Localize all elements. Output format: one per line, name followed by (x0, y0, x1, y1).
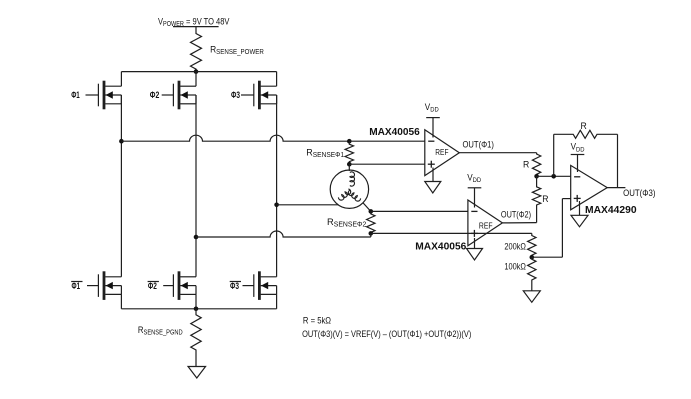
transistor Q5 (Φ2 low-side) (163, 271, 196, 300)
label R3 (581, 121, 588, 131)
node phase A tap (119, 139, 124, 144)
op-amp U3 MAX44290 (571, 165, 608, 209)
label gate Φ3 low (230, 281, 241, 291)
resistor RSENSEΦ1 (345, 141, 353, 164)
wire U2 output (502, 222, 536, 224)
wire feedback up (553, 134, 555, 176)
note transfer function (302, 328, 471, 339)
label MAX40056 (U1) (369, 127, 420, 138)
transistor Q1 (Φ1 high-side) (86, 81, 122, 110)
supply VDD U1 (425, 102, 440, 138)
wire phase B (hop) (196, 231, 371, 237)
op-amp U2 MAX40056 (468, 200, 503, 246)
label U1 REF (435, 147, 448, 157)
op-amp U1 MAX40056 (425, 130, 460, 176)
svg-text:OUT(Φ3): OUT(Φ3) (623, 188, 656, 199)
svg-text:VDD: VDD (467, 172, 481, 184)
svg-text:Φ2: Φ2 (150, 89, 160, 100)
node RSENSEΦ2 top (369, 209, 374, 214)
wire Q2 drain to rail (195, 72, 197, 87)
label OUT(Φ1) (463, 139, 495, 150)
resistor 100kΩ (528, 257, 536, 281)
wire Q1 drain to rail (120, 72, 122, 87)
label 200kΩ (504, 242, 526, 252)
svg-text:Φ1: Φ1 (72, 281, 81, 292)
svg-text:200kΩ: 200kΩ (504, 242, 526, 252)
wire to U2 non-inverting input and divider (371, 232, 532, 234)
resistor RSENSE_PGND (191, 309, 201, 352)
svg-text:REF: REF (479, 221, 493, 231)
ground U2 (467, 249, 483, 261)
transistor Q4 (Φ1 low-side) (87, 271, 121, 300)
node bus junction (194, 307, 199, 312)
label RSENSE_POWER (210, 44, 264, 56)
node RSENSEΦ1 top (347, 139, 352, 144)
wire Q4 source to bus (120, 294, 122, 308)
wire 100k to ground (531, 281, 533, 291)
wire Q3 drain to rail (276, 72, 278, 87)
node RSENSEΦ1 bottom (347, 162, 352, 167)
label U2 REF (479, 221, 493, 231)
wire to U1 inverting input (349, 140, 425, 142)
ground U3 (571, 215, 588, 227)
label MAX44290 (U3) (585, 205, 637, 216)
label MAX40056 (U2) (415, 241, 466, 252)
wire to U1 non-inverting input (349, 163, 425, 165)
node phase C tap (274, 203, 279, 208)
node rail junction (194, 69, 199, 74)
svg-text:Φ2: Φ2 (148, 281, 157, 291)
label R2 (542, 194, 549, 204)
wire bottom bus (121, 308, 276, 310)
wire motor to RSENSEΦ2 (363, 203, 371, 212)
wire Q5 source to bus (195, 294, 197, 308)
svg-text:R: R (523, 159, 530, 169)
label 100kΩ (504, 262, 526, 272)
U1 REF pin wire (432, 168, 434, 182)
svg-text:MAX40056: MAX40056 (415, 241, 466, 252)
wire divider to U3 plus (532, 199, 571, 258)
label gate Φ1 (71, 90, 80, 101)
label OUT(Φ2) (501, 210, 531, 220)
ground U1 (425, 182, 441, 194)
label OUT(Φ3) (623, 188, 656, 199)
svg-text:MAX40056: MAX40056 (369, 127, 420, 138)
label RSENSE_PGND (138, 324, 183, 337)
svg-text:VDD: VDD (425, 102, 439, 114)
resistor R1 (532, 153, 540, 176)
supply VDD U3 (571, 141, 585, 172)
wire phase B riser (370, 233, 372, 237)
svg-text:R: R (581, 121, 588, 131)
svg-text:OUT(Φ3)(V) = VREF(V) – (OUT(Φ1: OUT(Φ3)(V) = VREF(V) – (OUT(Φ1) +OUT(Φ2)… (302, 328, 471, 339)
wire RSENSEΦ1 to motor (348, 164, 350, 171)
svg-text:RSENSE_POWER: RSENSE_POWER (210, 44, 264, 56)
ground divider (523, 291, 540, 303)
label gate Φ1 low (71, 281, 82, 292)
resistor R2 (532, 176, 540, 206)
wire U3 output (607, 187, 625, 189)
label gate Φ2 (150, 89, 160, 100)
motor winding coil 1 (350, 172, 355, 186)
resistor R3 feedback (554, 130, 618, 138)
motor winding coil 3 (348, 190, 360, 201)
svg-text:RSENSEΦ1: RSENSEΦ1 (306, 147, 344, 159)
wire 200k to divider (531, 233, 533, 234)
svg-text:Φ1: Φ1 (71, 90, 80, 101)
node RSENSEΦ2 bottom (369, 231, 374, 236)
wire Q6 source to bus (276, 294, 278, 308)
node phase B tap (194, 235, 199, 240)
svg-text:R: R (542, 194, 549, 204)
label R1 (523, 159, 530, 169)
transistor Q2 (Φ2 high-side) (162, 81, 196, 110)
motor winding circle (330, 170, 368, 208)
label gate Φ3 (231, 90, 240, 100)
wire OUTΦ1 corner down (536, 153, 538, 154)
svg-text:R = 5kΩ: R = 5kΩ (303, 315, 332, 326)
wire U1 output (459, 152, 536, 154)
power net label VPOWER = 9V TO 48V (158, 15, 230, 28)
svg-text:RSENSE_PGND: RSENSE_PGND (138, 324, 183, 337)
wire phase C to motor (277, 204, 339, 206)
resistor 200kΩ (528, 235, 536, 258)
wire summing node to U3 (537, 175, 571, 177)
svg-text:OUT(Φ2): OUT(Φ2) (501, 210, 531, 220)
U2 REF pin wire (474, 238, 476, 249)
wire R2 to OUTΦ2 (536, 206, 538, 223)
svg-text:Φ3: Φ3 (231, 90, 240, 100)
svg-text:VDD: VDD (571, 141, 585, 153)
svg-text:MAX44290: MAX44290 (585, 205, 637, 216)
node divider junction (530, 255, 535, 260)
svg-text:RSENSEΦ2: RSENSEΦ2 (327, 216, 367, 229)
resistor RSENSE_POWER (191, 31, 202, 72)
node summing junction (534, 174, 539, 179)
wire phase C vertical (276, 95, 278, 277)
wire feedback down (617, 134, 619, 187)
motor winding coil 2 (338, 189, 350, 200)
transistor Q6 (Φ3 low-side) (243, 271, 277, 300)
supply VDD U2 (467, 172, 481, 208)
wire RSENSE_PGND to ground (195, 352, 197, 367)
label gate Φ2 low (148, 281, 159, 291)
wire top rail (121, 71, 276, 73)
transistor Q3 (Φ3 high-side) (241, 81, 277, 110)
U3 ground pin (579, 201, 581, 215)
ground power (188, 367, 206, 379)
wire to U2 inverting input (371, 210, 468, 212)
resistor RSENSEΦ2 (367, 211, 375, 233)
wire phase A to RSENSEΦ1 (hops) (121, 135, 349, 141)
svg-text:REF: REF (435, 147, 448, 157)
node feedback tap (551, 174, 556, 179)
svg-text:100kΩ: 100kΩ (504, 262, 526, 272)
svg-text:OUT(Φ1): OUT(Φ1) (463, 139, 495, 150)
wire phase A vertical (120, 95, 122, 277)
label RSENSEΦ2 (327, 216, 367, 229)
note R value (303, 315, 332, 326)
svg-text:Φ3: Φ3 (230, 281, 239, 291)
wire phase B vertical (195, 95, 197, 277)
label RSENSEΦ1 (306, 147, 344, 159)
wire VPOWER to RSENSE_POWER (195, 27, 197, 31)
